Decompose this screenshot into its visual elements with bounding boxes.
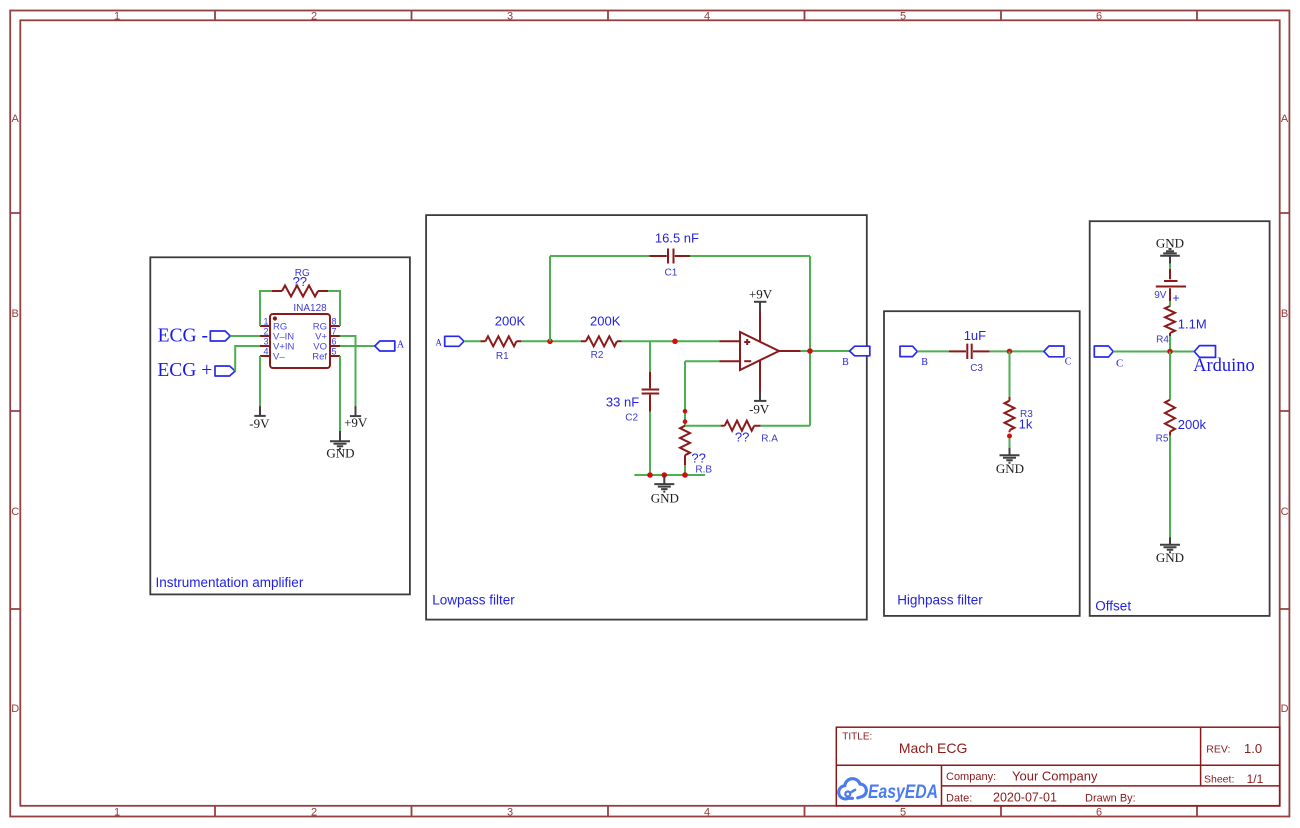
svg-text:Lowpass filter: Lowpass filter [432,592,515,607]
block: Highpass filter [884,311,1080,616]
svg-text:B: B [12,308,19,320]
svg-text:6: 6 [1096,11,1102,23]
svg-text:C2: C2 [625,413,638,424]
svg-text:200k: 200k [1178,417,1207,432]
svg-text:5: 5 [900,807,906,819]
power flag +9V [344,406,368,430]
svg-text:Highpass filter: Highpass filter [897,592,983,607]
wire R.B to ground bus [684,465,686,475]
wire port B to C3 [917,350,949,352]
wire port A to R1 [464,340,480,342]
pin 8 RG [313,317,340,333]
pin 2 V-IN [260,327,294,343]
svg-text:D: D [1281,703,1289,715]
ground bus wire [634,474,705,476]
svg-text:INA128: INA128 [293,303,327,314]
svg-text:5: 5 [332,347,337,357]
battery BT1 9V [1154,269,1186,305]
op-amp U1 INA128 body [270,303,330,368]
svg-text:??: ?? [735,430,749,445]
bus node dots [647,472,653,478]
svg-text:REV:: REV: [1206,743,1230,755]
svg-text:+: + [1173,291,1180,305]
output junction node [807,348,813,354]
port Arduino [1193,346,1255,377]
op-amp U2 [719,312,800,392]
svg-text:GND: GND [1156,550,1184,565]
svg-text:GND: GND [326,445,354,460]
wire pin4 to -9V [259,356,261,406]
feedback wire right segment [690,255,810,257]
EasyEDA logo [839,779,938,804]
resistor R5 200k [1156,400,1207,445]
svg-text:2: 2 [311,807,317,819]
wire R2 to op-amp + input [622,340,720,342]
resistor RG [272,268,328,297]
svg-text:5: 5 [900,11,906,23]
capacitor C2 33nF [606,372,659,424]
feedback vertical wire [809,256,811,426]
svg-text:V–: V– [273,352,285,363]
svg-text:33 nF: 33 nF [606,394,639,409]
svg-text:B: B [1281,308,1288,320]
wire pin6 to port A [340,345,375,347]
ground (highpass) [996,448,1024,476]
svg-text:1: 1 [114,807,120,819]
port A (lowpass in) [435,336,464,347]
wire R1 to R2 with node [521,340,581,342]
wire pin7 to +9V [340,336,356,406]
svg-text:Offset: Offset [1095,598,1131,613]
port B (lowpass out) [842,346,870,368]
svg-text:3: 3 [263,337,268,347]
svg-text:R5: R5 [1156,433,1169,444]
resistor R2 200K [581,313,622,361]
svg-text:+9V: +9V [749,287,773,302]
capacitor C1 16.5nF [649,230,699,278]
svg-text:Instrumentation amplifier: Instrumentation amplifier [156,575,304,590]
svg-text:9V: 9V [1154,290,1167,301]
svg-text:A: A [435,338,442,348]
svg-text:200K: 200K [590,313,621,328]
wire node down to R3 [1009,351,1011,396]
junction node [1167,349,1173,355]
svg-text:EasyEDA: EasyEDA [868,782,938,803]
capacitor C3 1uF [949,328,990,374]
svg-text:Date:: Date: [946,792,972,804]
wire op-amp output to port B [801,350,850,352]
power flag +9V (op-amp) [749,287,773,312]
svg-text:C3: C3 [970,363,983,374]
svg-text:-9V: -9V [749,402,770,417]
pin 5 Ref [312,347,340,363]
svg-text:ECG +: ECG + [157,360,212,381]
svg-text:R1: R1 [496,351,509,362]
svg-text:1/1: 1/1 [1247,772,1264,786]
svg-text:Arduino: Arduino [1193,356,1255,376]
svg-text:A: A [12,113,20,125]
port A (instrumentation out) [375,340,405,351]
junction node [1007,349,1013,355]
pin 4 V- [260,347,285,363]
power flag -9V (op-amp) [749,391,770,417]
svg-text:1: 1 [114,11,120,23]
svg-text:2: 2 [263,327,268,337]
svg-text:C1: C1 [665,267,678,278]
pin 7 V+ [315,327,340,343]
svg-text:??: ?? [691,450,705,465]
wire R4 to node [1169,336,1171,352]
resistor R.A [721,421,779,445]
svg-text:R2: R2 [591,350,604,361]
svg-text:GND: GND [996,461,1024,476]
svg-text:C: C [11,506,19,518]
node dots above R.B [683,409,688,414]
svg-text:16.5 nF: 16.5 nF [655,230,699,245]
svg-text:-9V: -9V [249,416,270,431]
R3 bottom node dot [1007,434,1012,439]
pin 3 V+IN [260,337,295,353]
svg-text:C: C [1065,356,1072,367]
svg-text:R.B: R.B [695,464,712,475]
svg-text:4: 4 [263,347,268,357]
wire C3 to port C with node [990,350,1044,352]
wire op-amp - input down [685,361,719,426]
power flag -9V [249,406,270,431]
svg-text:7: 7 [332,327,337,337]
svg-text:TITLE:: TITLE: [842,732,872,743]
svg-text:Sheet:: Sheet: [1204,773,1234,785]
resistor R3 1k [1005,397,1034,433]
resistor R.B [680,426,712,476]
svg-text:A: A [397,340,405,351]
wire RG to pin8 [328,291,340,326]
svg-text:1uF: 1uF [964,328,986,343]
resistor R4 1.1M [1156,306,1207,345]
svg-text:2020-07-01: 2020-07-01 [993,791,1057,805]
ground (instrumentation) [326,431,354,460]
wire R3 to ground [1009,439,1011,448]
svg-text:R.A: R.A [761,434,778,445]
feedback wire left segment [550,255,649,257]
wire pin5 to ground [339,356,341,431]
svg-text:A: A [1281,113,1289,125]
pin 6 VO [313,337,340,353]
port B (highpass in) [900,346,928,368]
ground (lowpass) [651,475,679,506]
ground (offset top, inverted) [1156,235,1184,263]
wire port C to Arduino port [1113,351,1194,353]
svg-text:4: 4 [704,807,710,819]
block: Lowpass filter [426,215,867,619]
wire C2 to ground bus [649,412,651,475]
svg-text:6: 6 [1096,807,1102,819]
svg-text:2: 2 [311,11,317,23]
svg-text:Ref: Ref [312,352,327,363]
junction node dot [672,339,678,345]
svg-text:6: 6 [332,337,337,347]
svg-text:1.1M: 1.1M [1178,317,1207,332]
junction node [547,339,553,345]
svg-text:4: 4 [704,11,710,23]
svg-text:B: B [921,357,928,368]
ground (offset bottom) [1156,537,1184,565]
resistor R1 200K [480,313,525,361]
wire pin1 to RG [260,291,272,326]
wire ECG- to pin2 [230,335,260,337]
svg-text:C: C [1281,506,1289,518]
svg-text:200K: 200K [495,313,526,328]
wire R.A to feedback vertical [761,425,810,427]
junction node at C2 branch [649,341,651,371]
wire ECG+ to pin3 [235,346,260,371]
svg-text:1k: 1k [1019,417,1033,432]
wire node down to R5 [1169,352,1171,400]
svg-text:Mach ECG: Mach ECG [899,740,967,756]
wire to R.A [685,425,721,427]
wire ground to battery [1169,264,1171,270]
port C (offset in) [1094,346,1123,370]
block: Instrumentation amplifier [150,257,410,594]
pin 1 RG [260,316,287,332]
svg-text:+9V: +9V [344,415,368,430]
svg-text:3: 3 [507,807,513,819]
svg-text:1: 1 [263,317,268,327]
svg-text:B: B [842,357,849,368]
wire node up to feedback [549,256,551,341]
svg-text:R4: R4 [1156,334,1169,345]
svg-text:C: C [1116,358,1123,370]
svg-text:Drawn By:: Drawn By: [1085,792,1136,804]
svg-text:8: 8 [332,317,337,327]
svg-text:D: D [11,703,19,715]
port C (highpass out) [1044,346,1072,367]
svg-text:Your Company: Your Company [1012,768,1098,783]
svg-text:Company:: Company: [946,771,996,783]
wire R5 to ground [1169,436,1171,537]
title block [836,727,1280,806]
svg-text:GND: GND [651,491,679,506]
svg-text:??: ?? [293,274,307,289]
wire battery to R4 [1169,301,1171,307]
port ECG- [158,325,231,346]
svg-text:1.0: 1.0 [1244,741,1262,756]
port ECG+ [157,360,235,381]
svg-text:ECG -: ECG - [158,325,208,346]
block: Offset [1090,221,1270,616]
svg-text:3: 3 [507,11,513,23]
